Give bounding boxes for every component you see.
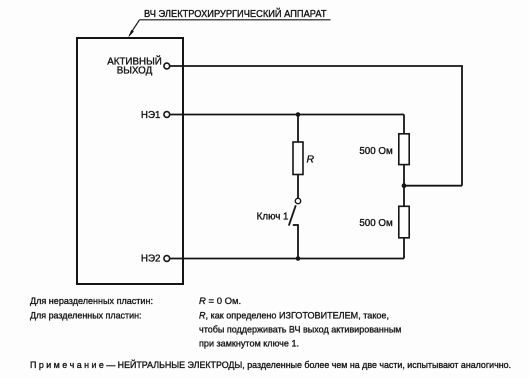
resistor 500 Ом (upper) [399,134,409,165]
wire active output horizontal [170,65,463,67]
svg-text:R, как определено ИЗГОТОВИТЕЛЕ: R, как определено ИЗГОТОВИТЕЛЕМ, такое, [199,310,389,321]
node junction at R branch top [296,112,301,117]
switch fixed contact tick [293,224,299,226]
svg-text:500 Ом: 500 Ом [359,146,393,157]
node junction at НЭ2 line [296,256,301,261]
wire НЭ2 horizontal [170,258,404,260]
leader arrow to apparatus box [128,20,139,38]
wire НЭ1 horizontal [170,114,404,116]
svg-text:при замкнутом ключе 1.: при замкнутом ключе 1. [199,339,299,350]
svg-text:Ключ 1: Ключ 1 [257,212,289,223]
terminal АКТИВНЫЙ ВЫХОД [164,63,170,69]
svg-text:Для неразделенных пластин:: Для неразделенных пластин: [30,296,153,307]
wire R lower lead to switch [297,175,299,199]
wire right vertical [461,66,463,186]
wire R branch upper lead [297,115,299,143]
svg-text:П р и м е ч а н и е — НЕЙТРАЛЬ: П р и м е ч а н и е — НЕЙТРАЛЬНЫЕ ЭЛЕКТР… [30,359,511,370]
title underline [140,19,331,21]
resistor R [293,142,303,175]
wire lower resistor bottom lead [403,238,405,259]
note: conditions text block [30,296,511,370]
switch Ключ 1 pivot contact [295,198,300,203]
svg-text:R: R [307,154,315,166]
svg-text:ВЧ ЭЛЕКТРОХИРУРГИЧЕСКИЙ АППАРА: ВЧ ЭЛЕКТРОХИРУРГИЧЕСКИЙ АППАРАТ [144,8,327,20]
svg-text:ВЫХОД: ВЫХОД [117,65,153,76]
svg-text:чтобы поддерживать ВЧ выход ак: чтобы поддерживать ВЧ выход активированн… [199,325,402,336]
title label ВЧ ЭЛЕКТРОХИРУРГИЧЕСКИЙ АППАРАТ [144,8,327,20]
svg-text:Для разделенных пластин:: Для разделенных пластин: [30,310,142,321]
node junction between 500 Ом resistors [402,183,407,188]
resistor 500 Ом (lower) [399,206,409,238]
label АКТИВНЫЙ ВЫХОД [107,56,162,77]
terminal НЭ2 [164,256,170,262]
wire switch to НЭ2 line [297,225,299,259]
apparatus box (generator enclosure) [77,38,183,284]
wire top resistor upper lead [403,115,405,134]
svg-text:500 Ом: 500 Ом [359,218,393,229]
svg-text:НЭ1: НЭ1 [141,110,161,121]
svg-text:R = 0 Ом.: R = 0 Ом. [199,296,241,307]
switch blade (open) [289,205,296,225]
wire middle tap horizontal [404,185,462,187]
svg-text:НЭ2: НЭ2 [141,254,161,265]
wire between resistors lower part [403,186,405,207]
wire between resistors upper part [403,165,405,186]
terminal НЭ1 [164,112,170,118]
